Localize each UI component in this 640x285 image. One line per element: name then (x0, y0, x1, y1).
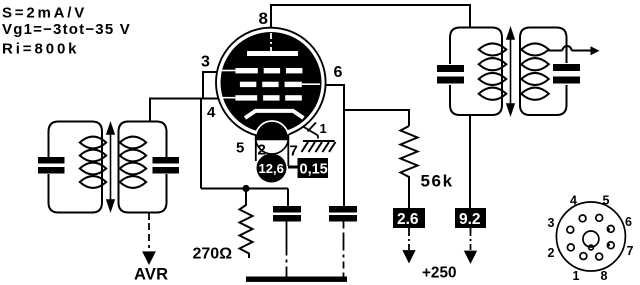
voltage box 9.2 (455, 208, 486, 228)
socket pin 4 hole (579, 215, 586, 222)
svg-text:1: 1 (573, 269, 580, 283)
svg-text:6: 6 (625, 215, 632, 229)
svg-text:Ri=800k: Ri=800k (2, 41, 79, 58)
heater circle black segment (256, 121, 289, 141)
grid row g3 (235, 68, 302, 73)
dash between values (288, 166, 298, 169)
tube V1 black interior (221, 32, 322, 133)
arrow to +250 (from 2.6) (404, 228, 414, 262)
svg-text:3: 3 (201, 54, 210, 71)
socket pin6 mark (607, 228, 610, 231)
socket pin 5 hole (596, 215, 603, 222)
tube V1 envelope (216, 28, 326, 138)
T1 secondary loop wire with capacitor gap (119, 122, 167, 213)
socket center key hole (583, 231, 599, 247)
heater value ellipse 12,6 (257, 154, 287, 183)
svg-text:6: 6 (334, 64, 343, 81)
svg-text:4: 4 (207, 104, 216, 121)
svg-text:S=2mA/V: S=2mA/V (2, 5, 87, 22)
T1 primary loop wire with capacitor gap (49, 122, 103, 213)
capacitor C5 (T2 primary tuning) (437, 65, 464, 84)
pin 1 lead with X (303, 123, 318, 139)
wire grid junction down (200, 99, 202, 189)
socket pin 2 hole (567, 244, 574, 251)
svg-text:2: 2 (548, 246, 555, 260)
shield hatch symbol (302, 141, 336, 152)
coil L4 (T2 secondary winding loops) (521, 43, 549, 99)
AVR arrow (144, 213, 155, 264)
pin 2 lead (255, 134, 257, 161)
coil L3 (T2 primary winding loops) (479, 43, 507, 99)
svg-text:5: 5 (236, 140, 244, 157)
wire to C3 (287, 189, 289, 207)
wire C3 to ground (dash-dot) (286, 222, 288, 278)
svg-text:4: 4 (570, 194, 577, 208)
heater current box 0,15 (298, 158, 329, 178)
T2 primary loop wire with capacitor gap (450, 28, 502, 116)
capacitor C4 (329, 206, 357, 222)
resistor R2 56k (401, 126, 418, 208)
wire T2 primary bottom to +250 (469, 115, 471, 208)
svg-text:9.2: 9.2 (459, 211, 481, 228)
anode lead dash (white) (270, 33, 272, 51)
coil L2 (T1 secondary winding loops) (120, 137, 146, 188)
capacitor C2 (T1 secondary tuning) (153, 157, 180, 174)
socket pin 6 hole (607, 226, 614, 233)
socket pin7 mark (607, 244, 610, 247)
coil L1 (T1 primary winding loops) (80, 137, 106, 188)
heater circle outline (256, 121, 289, 137)
capacitor C3 (273, 206, 301, 222)
socket key notch (589, 245, 594, 250)
capacitor C6 (T2 secondary tuning) (553, 64, 580, 84)
grid row g1 (235, 95, 301, 100)
socket pin 3 hole (567, 226, 574, 233)
grid lead pin6 (white) (302, 83, 320, 85)
wire anode pin8 to T2 primary top (271, 5, 470, 28)
svg-text:270Ω: 270Ω (193, 246, 233, 263)
wire grid to T1 secondary top (150, 99, 218, 122)
IF transformer T2 (right) (450, 28, 567, 116)
T2 secondary loop wire with capacitor gap (520, 28, 567, 116)
wire pin3 bracket (203, 72, 216, 99)
svg-text:0,15: 0,15 (300, 162, 328, 178)
svg-text:56k: 56k (421, 172, 454, 191)
cathode (white chevron) (245, 111, 304, 118)
svg-text:7: 7 (627, 244, 634, 258)
ground bar (246, 277, 347, 282)
wire cathode bus (201, 188, 288, 190)
socket pin 8 hole (596, 253, 603, 260)
socket pin 7 hole (607, 242, 614, 249)
grid lead pin3 (white) (222, 70, 235, 72)
anode plate (white bar) (247, 51, 298, 56)
svg-text:1: 1 (320, 121, 327, 136)
wire screen feed (344, 110, 409, 126)
socket diagram circle (556, 202, 625, 271)
svg-text:2: 2 (258, 142, 266, 159)
node junction dot (242, 185, 249, 192)
svg-text:5: 5 (603, 194, 610, 208)
svg-text:3: 3 (548, 216, 555, 230)
svg-text:7: 7 (290, 143, 298, 160)
socket pin 1 hole (580, 253, 587, 260)
wire pin6 to C4 and R2 (326, 85, 344, 206)
svg-text:12,6: 12,6 (259, 161, 284, 176)
T1 coupling arrow (107, 124, 114, 211)
grid row g2 (240, 82, 302, 87)
svg-text:+250: +250 (422, 265, 456, 282)
output wire with arrow (547, 46, 592, 51)
grid lead pin4 (white) (222, 97, 235, 99)
pin 7 lead (287, 134, 289, 166)
arrow to +250 (from 9.2) (465, 228, 475, 262)
output arrowhead (591, 46, 600, 55)
svg-text:8: 8 (259, 9, 268, 28)
svg-text:AVR: AVR (134, 266, 168, 284)
resistor R1 270 ohm (240, 189, 253, 259)
wire C4 to ground (dash-dot) (343, 222, 345, 278)
svg-text:8: 8 (601, 269, 608, 283)
T2 coupling arrow (507, 29, 514, 115)
capacitor C1 (T1 primary tuning) (38, 157, 65, 174)
IF transformer T1 (left) (49, 122, 167, 213)
pin 3 stub (203, 71, 217, 73)
voltage box 2.6 (393, 208, 425, 228)
pin 6 stub (326, 84, 344, 86)
svg-text:Vg1=−3tot−35 V: Vg1=−3tot−35 V (2, 21, 131, 38)
svg-text:2.6: 2.6 (397, 211, 419, 228)
